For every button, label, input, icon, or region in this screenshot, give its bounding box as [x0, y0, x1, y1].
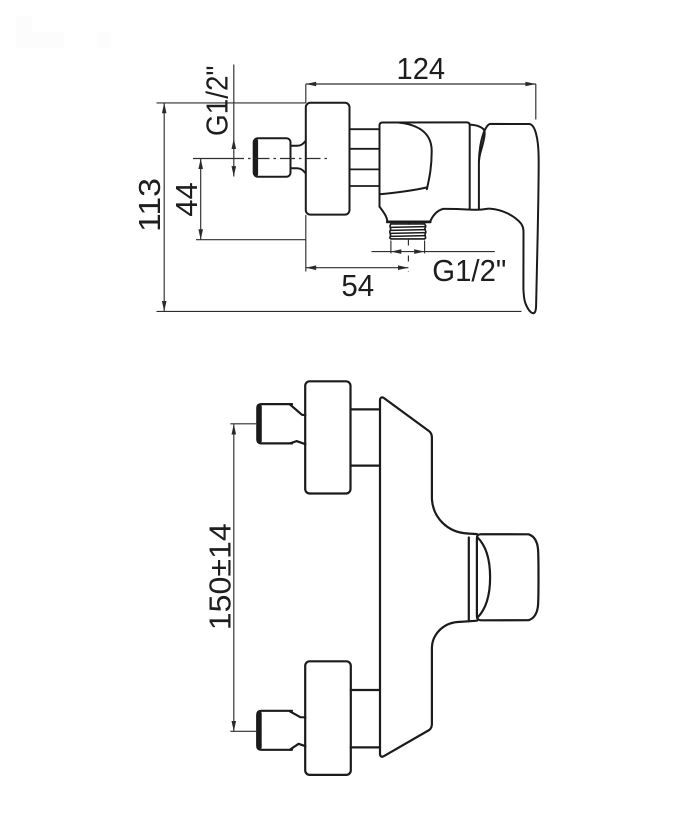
- dim 54 ext left: [305, 215, 307, 272]
- wall escutcheon plate (side): [306, 103, 350, 215]
- dim 113 ext bottom: [157, 310, 522, 312]
- thread line 3: [390, 232, 425, 235]
- outlet dashed centerline: [407, 240, 409, 273]
- connection bands between plate and body: [350, 129, 380, 186]
- dim 113 line: [163, 103, 165, 312]
- front top escutcheon plate: [305, 381, 350, 493]
- thread seam: [408, 222, 410, 224]
- front bottom union nut: [257, 711, 292, 750]
- dim 54 line: [306, 267, 409, 269]
- inlet stem bottom line with flare: [291, 168, 306, 173]
- arrow 124 left: [306, 82, 316, 87]
- body seam line: [380, 187, 427, 194]
- thread top line: [391, 223, 425, 225]
- dim 124 ext right: [535, 84, 537, 120]
- watermark block 2: [32, 32, 64, 48]
- thread line 4: [390, 235, 425, 238]
- arrow 54 right: [398, 265, 408, 270]
- inlet stem top line with flare: [291, 141, 306, 146]
- arrow 150 bottom: [232, 721, 237, 731]
- thread line 2: [390, 229, 425, 232]
- platform join bottom: [469, 620, 477, 623]
- svg-text:124: 124: [397, 51, 446, 86]
- thread line 1: [390, 226, 425, 229]
- dim 124 line: [306, 83, 536, 85]
- outlet fillet right: [430, 209, 443, 222]
- front top nut chamfer band: [257, 405, 261, 443]
- thread bottom line: [391, 238, 425, 240]
- svg-text:44: 44: [169, 182, 204, 216]
- front top union taper bottom: [290, 441, 305, 444]
- front bottom nut chamfer band: [257, 712, 261, 750]
- dim 150 ext top: [230, 423, 257, 425]
- dim 44 line: [200, 159, 202, 240]
- arrow G12 top up: [232, 139, 237, 149]
- watermark block 3: [96, 32, 111, 48]
- front bottom union taper top: [290, 711, 305, 717]
- centerline inlet solid lead: [193, 158, 244, 160]
- front bottom escutcheon plate: [305, 661, 351, 775]
- thread right edge: [425, 224, 426, 239]
- arrow 44 bottom: [198, 229, 203, 239]
- dim G12 bottom ext left: [390, 241, 392, 254]
- arrow 44 top: [198, 159, 203, 169]
- handle cup outer (front): [477, 534, 539, 620]
- arrow 54 left: [306, 265, 316, 270]
- outlet neck left edge: [380, 207, 388, 222]
- dim 113 ext top: [157, 102, 306, 104]
- arrow G12 bottom right: [414, 249, 424, 254]
- svg-text:150±14: 150±14: [203, 523, 238, 630]
- body underside and handle lever outline (side): [443, 124, 538, 313]
- dim 44 ext bottom: [196, 239, 306, 241]
- mixer body outline (side): [380, 122, 470, 208]
- inlet union nut (side): [254, 138, 291, 176]
- outlet flange: [387, 220, 430, 223]
- cartridge dome arc (front): [477, 537, 490, 618]
- dim 150 line: [233, 424, 235, 731]
- inlet nut chamfer band: [254, 139, 258, 176]
- svg-text:G1/2": G1/2": [432, 253, 506, 288]
- watermark block 1: [16, 16, 32, 49]
- front top union nut: [257, 404, 292, 443]
- cartridge collar arc (side): [470, 125, 485, 162]
- platform join top: [468, 532, 478, 535]
- front top union taper top: [290, 405, 305, 416]
- front bottom union taper bottom: [290, 744, 305, 750]
- dim 124 ext left: [305, 84, 307, 103]
- thread left edge: [390, 224, 391, 239]
- centerline inlet dash-dot: [248, 158, 330, 160]
- mixer body outline (front): [380, 397, 469, 756]
- arrow 113 bottom: [162, 301, 167, 311]
- arrow 113 top: [162, 103, 167, 113]
- dim G12 top line: [233, 65, 235, 177]
- dim G12 bottom ext right: [424, 241, 426, 254]
- front top stem lines: [351, 409, 381, 465]
- arrow 150 top: [232, 424, 237, 434]
- cartridge collar edge (front): [468, 538, 470, 621]
- front bottom stem lines: [351, 690, 380, 747]
- svg-text:54: 54: [341, 268, 374, 303]
- cartridge dome curve: [399, 123, 432, 190]
- dim 150 ext bottom: [230, 730, 257, 732]
- svg-text:113: 113: [132, 178, 167, 232]
- svg-text:G1/2": G1/2": [199, 66, 234, 136]
- dim G12 bottom line: [372, 251, 495, 253]
- arrow G12 top down: [232, 166, 237, 176]
- arrow 124 right: [525, 82, 535, 87]
- arrow G12 bottom left: [391, 249, 401, 254]
